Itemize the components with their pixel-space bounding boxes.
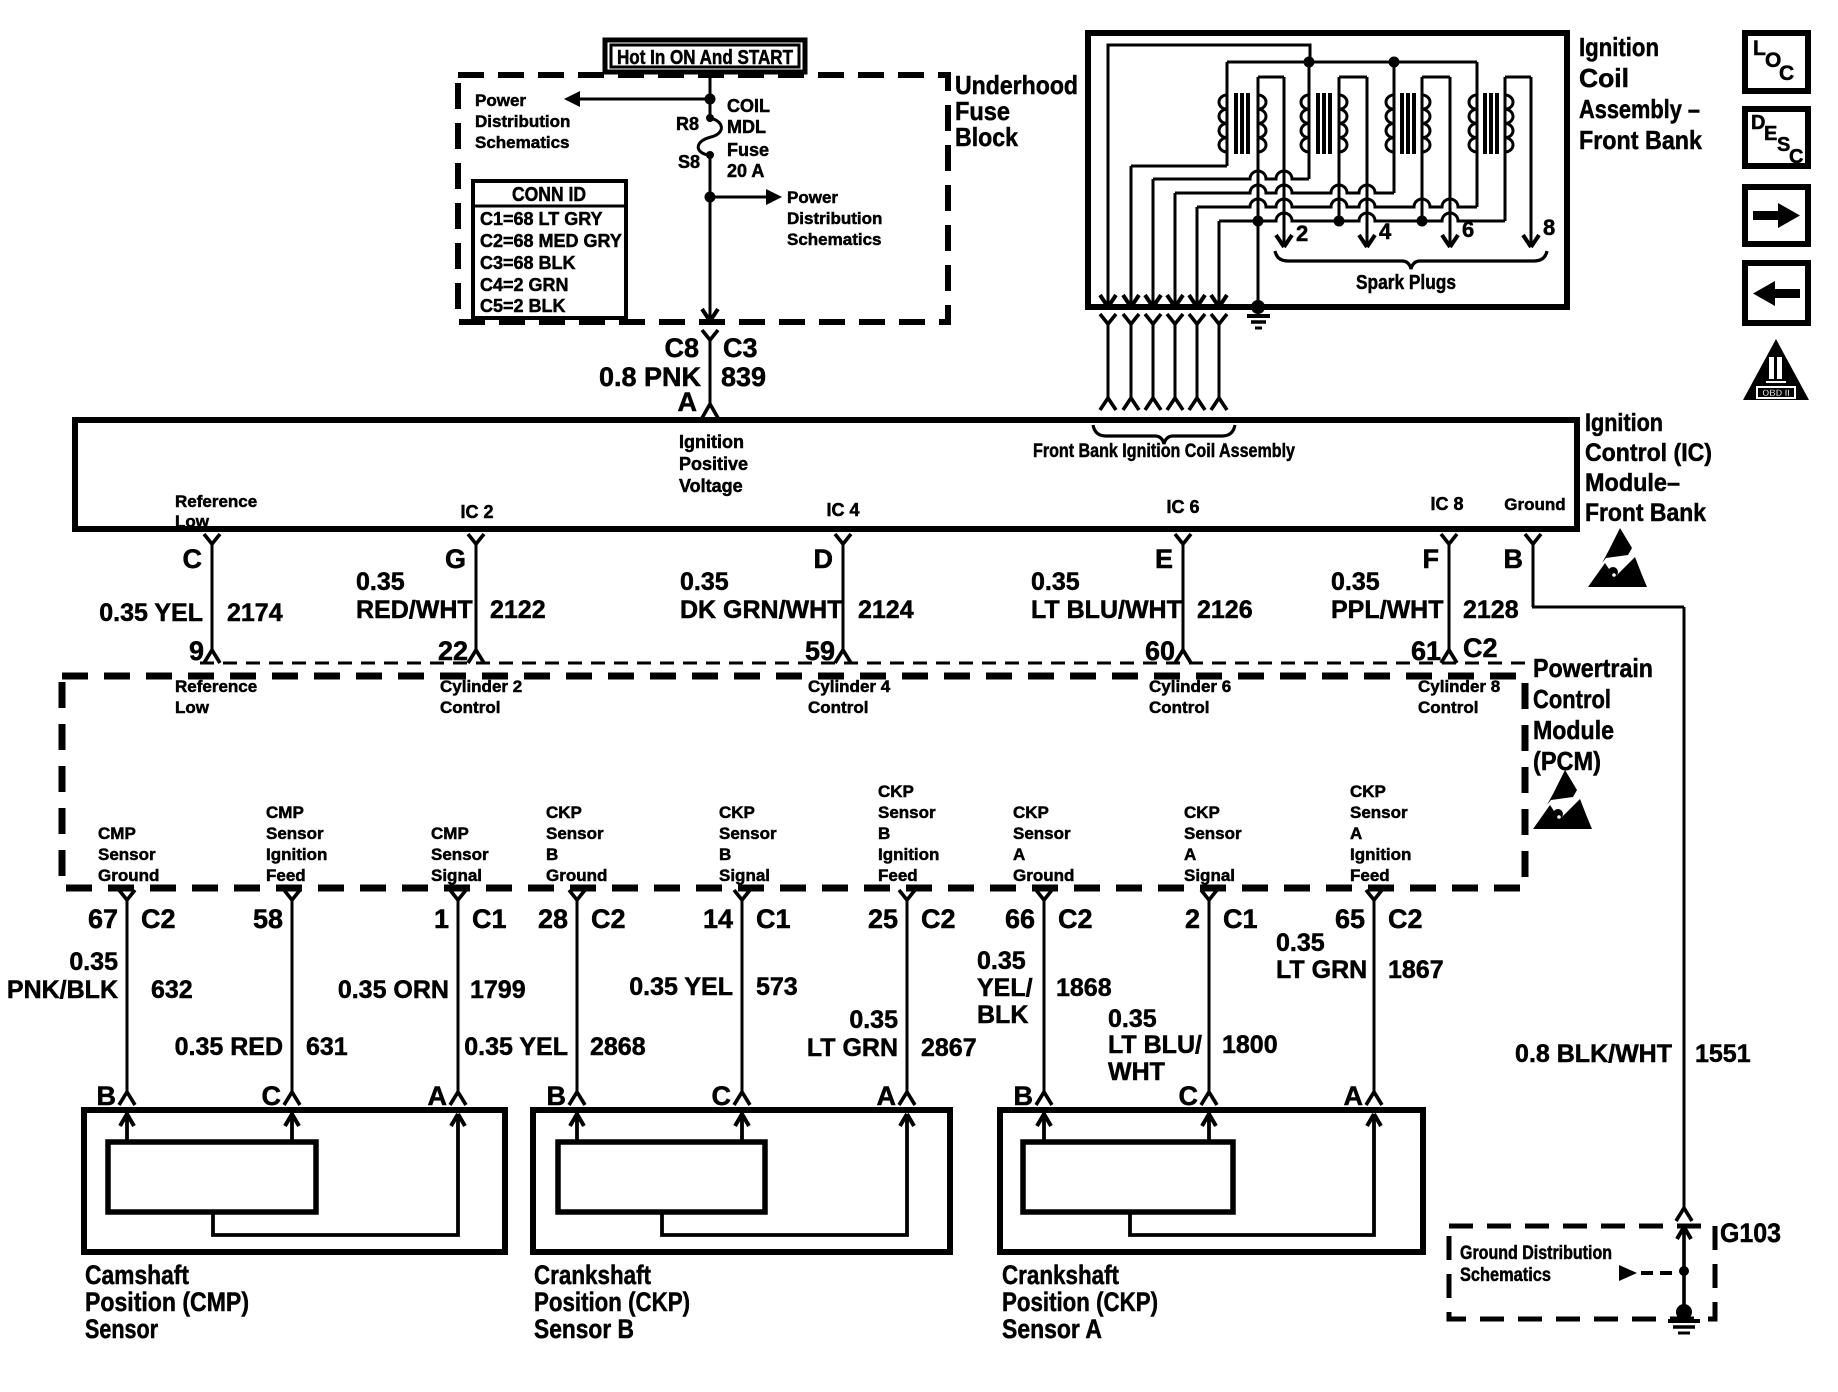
svg-text:Sensor: Sensor: [98, 845, 156, 864]
svg-text:R8: R8: [676, 114, 699, 134]
svg-text:CKP: CKP: [1013, 803, 1049, 822]
svg-text:Sensor: Sensor: [1184, 824, 1242, 843]
svg-text:Feed: Feed: [266, 866, 306, 885]
svg-text:0.35: 0.35: [977, 947, 1026, 975]
svg-text:Front Bank: Front Bank: [1579, 125, 1702, 155]
svg-text:B: B: [1504, 544, 1524, 574]
svg-text:Ground: Ground: [1013, 866, 1074, 885]
svg-text:Low: Low: [175, 698, 210, 717]
svg-text:C: C: [1789, 146, 1803, 168]
svg-text:Schematics: Schematics: [1460, 1265, 1551, 1286]
svg-text:65: 65: [1335, 904, 1365, 934]
svg-text:0.35 YEL: 0.35 YEL: [464, 1033, 568, 1061]
svg-text:Sensor B: Sensor B: [534, 1314, 634, 1344]
svg-text:Ignition: Ignition: [1579, 32, 1659, 62]
svg-text:Ignition: Ignition: [878, 845, 939, 864]
svg-text:C2: C2: [1058, 904, 1093, 934]
svg-text:C3=68 BLK: C3=68 BLK: [480, 253, 576, 273]
svg-text:PNK/BLK: PNK/BLK: [7, 976, 118, 1004]
svg-text:1868: 1868: [1056, 974, 1112, 1002]
svg-text:Position (CMP): Position (CMP): [85, 1287, 249, 1317]
svg-text:0.35: 0.35: [1031, 568, 1080, 596]
svg-text:Low: Low: [175, 512, 210, 531]
svg-text:C4=2 GRN: C4=2 GRN: [480, 275, 569, 295]
svg-text:2174: 2174: [227, 599, 283, 627]
svg-text:CONN ID: CONN ID: [512, 184, 586, 206]
svg-text:Position (CKP): Position (CKP): [534, 1287, 690, 1317]
svg-text:0.35: 0.35: [69, 948, 118, 976]
svg-text:Sensor A: Sensor A: [1002, 1314, 1102, 1344]
svg-text:Camshaft: Camshaft: [85, 1260, 189, 1290]
svg-text:632: 632: [151, 976, 193, 1004]
svg-text:Power: Power: [787, 188, 838, 207]
svg-text:0.35: 0.35: [356, 568, 405, 596]
svg-text:58: 58: [253, 904, 283, 934]
svg-text:B: B: [546, 845, 558, 864]
svg-text:0.35: 0.35: [1331, 568, 1380, 596]
svg-text:Distribution: Distribution: [787, 209, 882, 228]
svg-text:S8: S8: [678, 152, 700, 172]
svg-text:1800: 1800: [1222, 1031, 1278, 1059]
svg-text:2867: 2867: [921, 1034, 977, 1062]
svg-text:Schematics: Schematics: [787, 230, 882, 249]
svg-text:Sensor: Sensor: [431, 845, 489, 864]
svg-text:C5=2 BLK: C5=2 BLK: [480, 296, 566, 316]
svg-text:Module: Module: [1533, 715, 1614, 745]
svg-text:PPL/WHT: PPL/WHT: [1331, 596, 1444, 624]
svg-text:Ignition: Ignition: [266, 845, 327, 864]
svg-text:Control: Control: [1149, 698, 1209, 717]
svg-text:Module–: Module–: [1585, 469, 1680, 497]
svg-text:2122: 2122: [490, 596, 546, 624]
svg-text:Sensor: Sensor: [546, 824, 604, 843]
svg-text:Ignition: Ignition: [1585, 409, 1663, 437]
svg-text:Schematics: Schematics: [475, 133, 570, 152]
svg-text:C2=68 MED GRY: C2=68 MED GRY: [480, 231, 622, 251]
svg-text:1551: 1551: [1695, 1040, 1751, 1068]
svg-text:C1: C1: [1223, 904, 1258, 934]
svg-text:G: G: [445, 544, 466, 574]
svg-text:C2: C2: [1463, 633, 1498, 663]
svg-text:C2: C2: [591, 904, 626, 934]
svg-text:0.35 YEL: 0.35 YEL: [99, 599, 203, 627]
svg-text:1867: 1867: [1388, 956, 1444, 984]
svg-text:Control (IC): Control (IC): [1585, 439, 1712, 467]
svg-text:Spark Plugs: Spark Plugs: [1356, 272, 1456, 294]
svg-text:Ignition: Ignition: [679, 432, 744, 452]
svg-text:A: A: [678, 387, 698, 417]
svg-text:14: 14: [703, 904, 733, 934]
svg-text:YEL/: YEL/: [977, 974, 1033, 1002]
svg-text:0.35 ORN: 0.35 ORN: [338, 976, 449, 1004]
svg-text:Cylinder 8: Cylinder 8: [1418, 677, 1500, 696]
svg-text:B: B: [97, 1081, 117, 1111]
svg-text:C1: C1: [472, 904, 507, 934]
svg-text:Reference: Reference: [175, 492, 257, 511]
svg-text:IC 2: IC 2: [460, 502, 493, 522]
svg-text:0.35: 0.35: [849, 1006, 898, 1034]
svg-text:Ground: Ground: [1504, 495, 1565, 514]
svg-text:Distribution: Distribution: [475, 112, 570, 131]
svg-text:Voltage: Voltage: [679, 476, 743, 496]
svg-text:Front Bank: Front Bank: [1585, 499, 1706, 527]
svg-text:C: C: [183, 544, 203, 574]
svg-text:RED/WHT: RED/WHT: [356, 596, 473, 624]
svg-text:C: C: [1779, 62, 1794, 85]
svg-text:B: B: [878, 824, 890, 843]
svg-text:2128: 2128: [1463, 596, 1519, 624]
svg-text:WHT: WHT: [1108, 1058, 1165, 1086]
svg-text:CKP: CKP: [878, 782, 914, 801]
svg-text:4: 4: [1379, 219, 1392, 244]
svg-text:A: A: [877, 1081, 897, 1111]
svg-text:0.35 RED: 0.35 RED: [175, 1033, 283, 1061]
svg-text:LT BLU/: LT BLU/: [1108, 1031, 1202, 1059]
svg-text:573: 573: [756, 973, 798, 1001]
svg-text:OBD II: OBD II: [1762, 388, 1790, 398]
svg-text:28: 28: [538, 904, 568, 934]
svg-text:A: A: [1350, 824, 1362, 843]
svg-text:Fuse: Fuse: [727, 140, 769, 160]
svg-text:C8: C8: [664, 333, 699, 363]
svg-text:Block: Block: [955, 122, 1018, 152]
svg-text:D: D: [814, 544, 834, 574]
svg-text:Hot In ON And START: Hot In ON And START: [617, 47, 793, 69]
svg-text:2868: 2868: [590, 1033, 646, 1061]
svg-text:F: F: [1423, 544, 1440, 574]
svg-text:CKP: CKP: [1350, 782, 1386, 801]
svg-text:0.8 BLK/WHT: 0.8 BLK/WHT: [1515, 1040, 1672, 1068]
svg-text:LT GRN: LT GRN: [807, 1034, 898, 1062]
svg-text:Coil: Coil: [1579, 63, 1629, 93]
svg-text:Sensor: Sensor: [719, 824, 777, 843]
svg-text:B: B: [547, 1081, 567, 1111]
svg-text:Cylinder 4: Cylinder 4: [808, 677, 891, 696]
svg-text:Control: Control: [440, 698, 500, 717]
svg-text:2: 2: [1185, 904, 1200, 934]
svg-text:1799: 1799: [470, 976, 526, 1004]
svg-text:Signal: Signal: [1184, 866, 1235, 885]
svg-text:A: A: [428, 1081, 448, 1111]
svg-text:A: A: [1013, 845, 1025, 864]
svg-text:C: C: [1179, 1081, 1199, 1111]
svg-text:Position (CKP): Position (CKP): [1002, 1287, 1158, 1317]
svg-text:Sensor: Sensor: [1013, 824, 1071, 843]
svg-text:Front Bank Ignition Coil Assem: Front Bank Ignition Coil Assembly: [1033, 441, 1295, 462]
svg-text:0.35: 0.35: [1108, 1005, 1157, 1033]
svg-text:C3: C3: [723, 333, 758, 363]
svg-text:Signal: Signal: [719, 866, 770, 885]
svg-text:Powertrain: Powertrain: [1533, 653, 1653, 683]
svg-text:DK GRN/WHT: DK GRN/WHT: [680, 596, 842, 624]
svg-text:Sensor: Sensor: [266, 824, 324, 843]
svg-text:67: 67: [88, 904, 118, 934]
svg-text:CKP: CKP: [719, 803, 755, 822]
svg-text:Signal: Signal: [431, 866, 482, 885]
svg-text:Cylinder 2: Cylinder 2: [440, 677, 522, 696]
svg-text:C1=68 LT GRY: C1=68 LT GRY: [480, 209, 603, 229]
svg-text:Ignition: Ignition: [1350, 845, 1411, 864]
svg-text:B: B: [719, 845, 731, 864]
svg-text:20 A: 20 A: [727, 161, 764, 181]
svg-text:Control: Control: [808, 698, 868, 717]
svg-text:LT BLU/WHT: LT BLU/WHT: [1031, 596, 1182, 624]
svg-text:Cylinder 6: Cylinder 6: [1149, 677, 1231, 696]
svg-text:C2: C2: [141, 904, 176, 934]
svg-text:Positive: Positive: [679, 454, 748, 474]
svg-text:Reference: Reference: [175, 677, 257, 696]
svg-text:C2: C2: [921, 904, 956, 934]
svg-text:Ground Distribution: Ground Distribution: [1460, 1243, 1612, 1264]
svg-text:COIL: COIL: [727, 96, 770, 116]
svg-text:G103: G103: [1720, 1218, 1781, 1248]
svg-text:Sensor: Sensor: [1350, 803, 1408, 822]
svg-text:CKP: CKP: [546, 803, 582, 822]
svg-text:0.35: 0.35: [680, 568, 729, 596]
svg-text:(PCM): (PCM): [1533, 746, 1601, 776]
svg-text:IC 6: IC 6: [1166, 497, 1199, 517]
svg-text:Feed: Feed: [878, 866, 918, 885]
svg-text:C: C: [712, 1081, 732, 1111]
svg-text:CKP: CKP: [1184, 803, 1220, 822]
svg-text:0.35: 0.35: [1276, 929, 1325, 957]
svg-text:Assembly –: Assembly –: [1579, 94, 1700, 124]
svg-text:E: E: [1155, 544, 1173, 574]
svg-text:B: B: [1014, 1081, 1034, 1111]
svg-text:CMP: CMP: [431, 824, 469, 843]
svg-text:A: A: [1344, 1081, 1364, 1111]
svg-text:839: 839: [721, 362, 766, 392]
svg-text:1: 1: [434, 904, 449, 934]
svg-text:BLK: BLK: [977, 1001, 1028, 1029]
svg-text:LT GRN: LT GRN: [1276, 956, 1367, 984]
svg-text:CMP: CMP: [266, 803, 304, 822]
svg-text:Feed: Feed: [1350, 866, 1390, 885]
svg-text:Ground: Ground: [546, 866, 607, 885]
svg-text:Power: Power: [475, 91, 526, 110]
svg-text:2126: 2126: [1197, 596, 1253, 624]
svg-text:IC 8: IC 8: [1430, 494, 1463, 514]
svg-text:Crankshaft: Crankshaft: [1002, 1260, 1119, 1290]
svg-text:66: 66: [1005, 904, 1035, 934]
svg-text:8: 8: [1543, 215, 1555, 240]
svg-text:631: 631: [306, 1033, 348, 1061]
svg-text:A: A: [1184, 845, 1196, 864]
svg-text:MDL: MDL: [727, 117, 766, 137]
svg-text:Sensor: Sensor: [878, 803, 936, 822]
svg-text:CMP: CMP: [98, 824, 136, 843]
svg-text:25: 25: [868, 904, 898, 934]
svg-text:C: C: [262, 1081, 282, 1111]
svg-text:2124: 2124: [858, 596, 914, 624]
svg-text:0.35 YEL: 0.35 YEL: [629, 973, 733, 1001]
svg-text:2: 2: [1296, 221, 1308, 246]
svg-text:E: E: [1764, 123, 1777, 145]
svg-text:Crankshaft: Crankshaft: [534, 1260, 651, 1290]
svg-text:C1: C1: [756, 904, 791, 934]
svg-text:IC 4: IC 4: [826, 500, 859, 520]
svg-text:Sensor: Sensor: [85, 1314, 158, 1344]
svg-text:Ground: Ground: [98, 866, 159, 885]
svg-text:Control: Control: [1533, 684, 1611, 714]
svg-text:Control: Control: [1418, 698, 1478, 717]
svg-text:C2: C2: [1388, 904, 1423, 934]
